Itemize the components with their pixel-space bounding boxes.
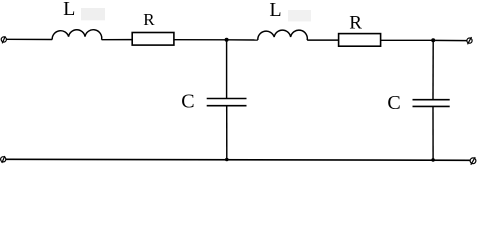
capacitor C1 lower lead wire <box>226 106 228 159</box>
wire L1 to R1 <box>102 39 133 41</box>
inductor L1 <box>52 30 102 40</box>
bottom junction dot node B' <box>431 158 435 162</box>
wire R2 to node B <box>381 39 434 41</box>
capacitor C1 upper lead wire <box>226 40 228 98</box>
scan artifact patch near L1 <box>81 8 105 20</box>
svg-text:R: R <box>349 13 362 34</box>
capacitor C2 plates <box>413 99 450 101</box>
capacitor C1 plates <box>207 98 247 100</box>
inductor L2 <box>258 30 308 40</box>
wire R1 to node A <box>174 39 227 41</box>
svg-text:C: C <box>181 91 194 113</box>
capacitor C2 lower lead wire <box>432 107 434 160</box>
capacitor C2 upper lead wire <box>432 40 434 99</box>
node A junction dot <box>225 38 229 42</box>
wire node B to terminal top-right <box>433 39 467 41</box>
svg-text:L: L <box>63 0 75 20</box>
terminal bottom-left <box>1 156 6 163</box>
terminal bottom-right <box>470 157 476 165</box>
svg-text:R: R <box>143 10 155 29</box>
svg-text:C: C <box>387 92 400 114</box>
bottom rail wire <box>6 159 470 160</box>
svg-text:L: L <box>269 0 281 21</box>
wire L2 to R2 <box>307 39 338 41</box>
wire node A to L2 <box>227 39 258 41</box>
resistor R1 <box>132 33 174 46</box>
resistor R2 <box>339 34 381 47</box>
terminal top-right <box>467 37 472 44</box>
bottom junction dot node A' <box>225 158 229 162</box>
scan artifact patch near L2 <box>288 10 311 21</box>
node B junction dot <box>431 38 435 42</box>
wire top rail: terminal to L1 <box>6 38 52 40</box>
terminal top-left <box>1 36 6 43</box>
